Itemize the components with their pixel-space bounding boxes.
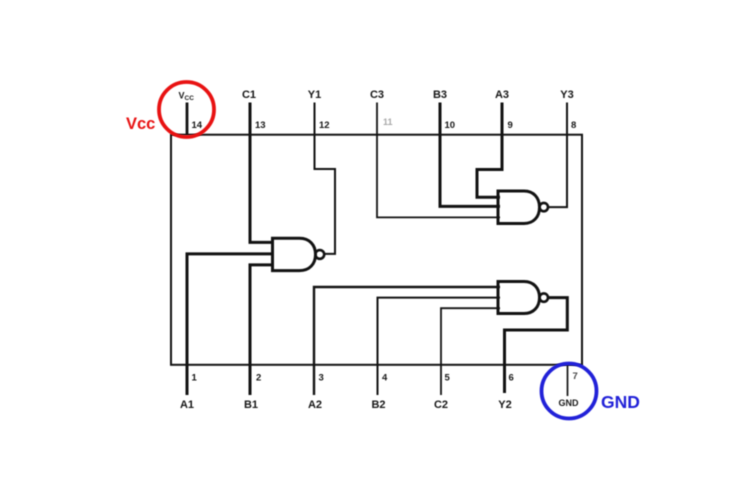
label C3 [370, 89, 384, 101]
label Y3 [560, 89, 573, 101]
svg-text:A2: A2 [308, 399, 322, 411]
svg-text:C3: C3 [370, 89, 384, 101]
svg-text:3: 3 [319, 373, 324, 384]
svg-text:8: 8 [571, 120, 576, 131]
svg-text:B1: B1 [244, 399, 258, 411]
svg-text:A1: A1 [180, 399, 194, 411]
label GND (pin 7 name) [559, 398, 580, 408]
wire A2: pin 3 to gate U1B top input [314, 287, 500, 395]
wire B3: pin 10 to gate U1C middle input [440, 103, 500, 207]
wire Y2: gate U1B output jog to pin 6 [505, 298, 568, 393]
pin number 13 [255, 120, 266, 131]
pin number 3 [319, 373, 324, 384]
svg-text:Y3: Y3 [560, 89, 573, 101]
pin number 5 [445, 373, 451, 384]
pin number 7 [573, 371, 578, 382]
svg-text:13: 13 [255, 120, 266, 131]
svg-text:4: 4 [382, 373, 388, 384]
svg-text:GND: GND [559, 398, 580, 408]
pin number 1 [192, 373, 198, 384]
pin number 12 [319, 120, 330, 131]
pin number 2 [256, 373, 261, 384]
wire C1: pin 13 to gate U1A top input [250, 103, 274, 243]
gate U1C (upper right 3-input NAND, output Y3) [498, 191, 548, 224]
pin number 11 [383, 117, 393, 127]
wire B2: pin 4 to gate U1B middle input [378, 298, 501, 395]
label C2 [434, 399, 448, 411]
svg-text:B3: B3 [433, 89, 447, 101]
svg-text:6: 6 [509, 373, 514, 384]
pin number 14 [192, 120, 203, 131]
label Y1 [308, 89, 321, 101]
pin 14 Vcc stub [186, 103, 189, 135]
svg-text:B2: B2 [371, 399, 385, 411]
red annotation circle around Vcc pin [159, 82, 214, 137]
svg-text:C1: C1 [242, 89, 256, 101]
IC body outline [171, 135, 582, 365]
svg-text:GND: GND [601, 392, 640, 412]
label A2 [308, 399, 322, 411]
wire Y3: pin 8 to gate U1C output [548, 103, 567, 208]
svg-text:5: 5 [445, 373, 451, 384]
label A1 [180, 399, 194, 411]
wire Y1: pin 12 jog to gate U1A output [315, 103, 336, 254]
label C1 [242, 89, 256, 101]
pin number 4 [382, 373, 388, 384]
wire A3: pin 9 jog to gate U1C top input [477, 103, 502, 198]
wire A1: pin 1 to gate U1A middle input [187, 254, 274, 395]
gate U1A (left 3-input NAND, output Y1) [273, 238, 325, 270]
label B3 [433, 89, 447, 101]
pin 7 GND stub [567, 364, 569, 396]
wire C2: pin 5 to gate U1B bottom input [441, 308, 500, 395]
svg-text:VCC: VCC [179, 91, 195, 103]
pin number 6 [509, 373, 514, 384]
svg-text:A3: A3 [495, 89, 509, 101]
svg-text:14: 14 [192, 120, 203, 131]
svg-text:Y1: Y1 [308, 89, 321, 101]
pin number 9 [508, 120, 513, 131]
label B2 [371, 399, 385, 411]
label B1 [244, 399, 258, 411]
svg-text:7: 7 [573, 371, 578, 382]
label Y2 [498, 399, 511, 411]
blue annotation circle around GND pin [542, 364, 597, 419]
svg-text:Y2: Y2 [498, 399, 511, 411]
svg-text:12: 12 [319, 120, 330, 131]
svg-text:C2: C2 [434, 399, 448, 411]
svg-text:10: 10 [445, 120, 456, 131]
svg-text:9: 9 [508, 120, 513, 131]
gate U1B (lower right 3-input NAND, output Y2) [498, 282, 548, 314]
svg-text:11: 11 [383, 117, 393, 127]
wire B1: pin 2 to gate U1A bottom input [250, 265, 274, 395]
wire C3: pin 11 to gate U1C bottom input [377, 103, 500, 218]
svg-text:Vcc: Vcc [126, 115, 155, 133]
label VCC (pin 14 name) [179, 91, 195, 103]
svg-text:2: 2 [256, 373, 261, 384]
label A3 [495, 89, 509, 101]
svg-text:1: 1 [192, 373, 198, 384]
pin number 10 [445, 120, 456, 131]
pin number 8 [571, 120, 576, 131]
